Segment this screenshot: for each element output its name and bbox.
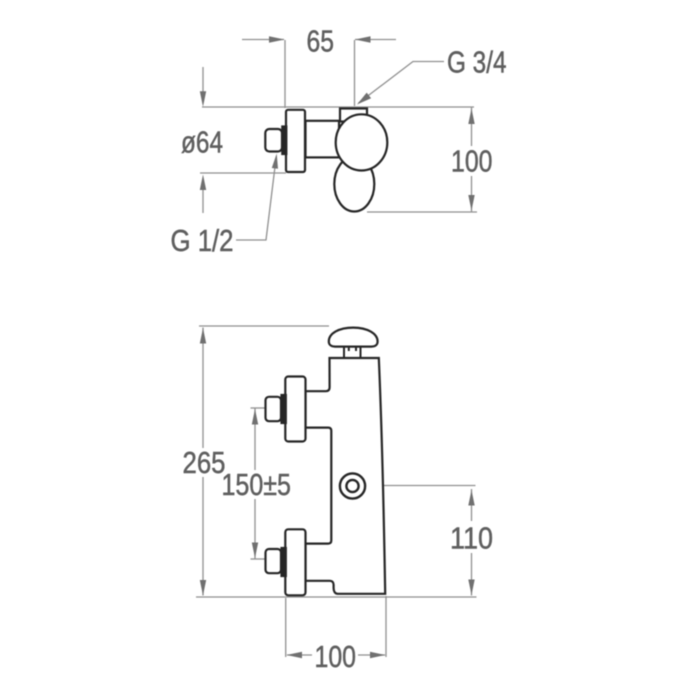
upper escutcheon (front view) bbox=[285, 377, 305, 442]
arrow 150 down bbox=[252, 543, 258, 559]
lower escutcheon (front view) bbox=[285, 529, 305, 595]
svg-text:150±5: 150±5 bbox=[222, 467, 292, 502]
arrow o64 up bbox=[200, 175, 206, 191]
handle knob circle (side view) bbox=[336, 114, 388, 170]
arrow 110 up bbox=[468, 490, 474, 506]
lower inlet nut bbox=[266, 549, 282, 573]
faucet body (side view) bbox=[306, 121, 340, 158]
arrow 100 left-pointing bbox=[287, 652, 303, 658]
faucet body outline (front view) bbox=[306, 358, 386, 594]
svg-text:G 3/4: G 3/4 bbox=[447, 45, 507, 80]
wall escutcheon (side view) bbox=[286, 110, 305, 172]
arrow o64 down bbox=[200, 91, 206, 107]
wire 65 dim line right bbox=[355, 39, 396, 41]
wire 100 ext bottom bbox=[367, 211, 477, 213]
wire 265 ext top bbox=[199, 325, 329, 327]
wire ref line B (bottom of plate, y=173) bbox=[200, 172, 286, 174]
svg-text:ø64: ø64 bbox=[181, 125, 223, 160]
wire ref line A (top of plate, y=107) bbox=[202, 106, 474, 108]
wire 100 dim line bbox=[287, 654, 312, 656]
G3/4 outlet stub (side view) bbox=[340, 109, 367, 122]
arrow 100 down bbox=[468, 195, 474, 211]
wire G3/4 leader bbox=[359, 62, 445, 104]
svg-text:G 1/2: G 1/2 bbox=[171, 223, 234, 258]
svg-text:100: 100 bbox=[315, 639, 357, 674]
wire outlet centre line bbox=[365, 485, 476, 487]
wire 100 ext left bbox=[285, 598, 287, 657]
arrow 65 right-pointing bbox=[269, 36, 285, 42]
lower inlet flange bbox=[282, 548, 286, 576]
arrow 100 up bbox=[468, 109, 474, 125]
arrow G3/4 leader bbox=[357, 93, 371, 105]
wire 110 dim line bbox=[471, 489, 473, 521]
svg-text:265: 265 bbox=[183, 445, 226, 480]
arrow 110 down bbox=[468, 580, 474, 596]
arrow 150 up bbox=[252, 409, 258, 425]
wire 65 dim line left bbox=[242, 39, 284, 41]
shower outlet inner circle bbox=[346, 480, 358, 492]
wire o64 upper arrow shaft bbox=[202, 67, 204, 92]
upper inlet flange bbox=[282, 395, 286, 423]
svg-text:100: 100 bbox=[451, 144, 493, 179]
wire 150 tick top bbox=[251, 407, 266, 409]
handle stem (front view) bbox=[344, 346, 361, 358]
handle knob dome (front view) bbox=[329, 328, 378, 347]
arrow 265 up bbox=[200, 328, 206, 344]
wire 265 dim line bbox=[202, 328, 204, 449]
G1/2 nut (side view) bbox=[265, 129, 282, 152]
wire 100 dim line bbox=[471, 108, 473, 147]
wire o64 lower arrow shaft bbox=[202, 189, 204, 213]
wire 65 ext line left bbox=[284, 40, 286, 108]
wire 65 ext line right bbox=[354, 40, 356, 106]
wire 150 tick bottom bbox=[251, 558, 266, 560]
lever handle (side view) bbox=[334, 157, 374, 212]
upper inlet nut bbox=[266, 397, 282, 421]
wire 265/110 ext bottom bbox=[196, 596, 477, 598]
svg-text:65: 65 bbox=[307, 24, 335, 59]
G1/2 flange (side view) bbox=[282, 127, 286, 155]
wire 100 ext right bbox=[385, 596, 387, 657]
arrow 65 left-pointing bbox=[355, 36, 371, 42]
arrow 100 right-pointing bbox=[370, 652, 386, 658]
arrow G1/2 leader bbox=[272, 154, 278, 169]
arrow 265 down bbox=[200, 580, 206, 596]
wire G1/2 leader bbox=[236, 157, 276, 240]
shower outlet outer circle bbox=[340, 473, 365, 498]
wire 150 dim line bbox=[254, 408, 256, 470]
svg-text:110: 110 bbox=[450, 521, 493, 556]
